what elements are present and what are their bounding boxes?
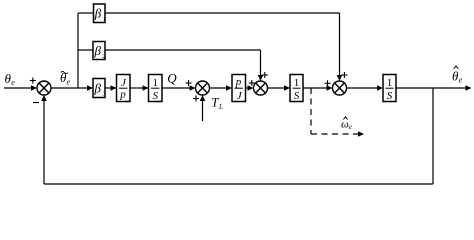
wire feedback up into S1 — [41, 95, 47, 184]
svg-text:e: e — [459, 76, 463, 85]
plus sign top right at S3 — [262, 72, 268, 78]
node theta_hat_e label — [452, 66, 463, 85]
svg-text:1: 1 — [152, 77, 158, 89]
node theta_tilde_e label — [60, 70, 71, 87]
node theta_e input label — [5, 71, 16, 87]
svg-text:β: β — [94, 6, 102, 21]
dashed wire omega_hat branch vertical — [310, 88, 312, 134]
svg-text:β: β — [93, 43, 101, 58]
svg-text:S: S — [294, 90, 300, 102]
svg-text:S: S — [387, 90, 393, 102]
wire stub to beta1 block — [78, 12, 94, 14]
node T_L label — [211, 95, 223, 112]
wire S4 to block 1/S c — [347, 85, 384, 91]
plus sign left at S3 — [249, 80, 255, 86]
wire feedback down from output node — [432, 88, 434, 184]
wire beta2 down into summing junction S3 — [258, 50, 264, 81]
wire beta3 to block J/p — [105, 85, 117, 91]
node omega_hat_e label — [341, 117, 352, 131]
block beta1 — [94, 4, 107, 23]
wire J/p to block 1/S a — [130, 85, 149, 91]
block 1/S b — [290, 75, 303, 102]
wire branch vertical up from node at x=78 — [77, 13, 79, 88]
plus sign left at S4 — [325, 80, 331, 86]
svg-text:ω: ω — [341, 118, 349, 130]
block beta3 — [93, 79, 107, 98]
block 1/S c — [383, 75, 396, 102]
svg-text:p: p — [119, 89, 126, 101]
svg-text:1: 1 — [103, 16, 106, 23]
wire S3 to block 1/S b — [268, 85, 291, 91]
plus sign bottom at S2 — [193, 96, 199, 102]
summing junction S4 — [333, 81, 347, 95]
wire 1/S a to summing junction S2 — [162, 85, 196, 91]
wire S2 to block p/J — [210, 85, 233, 91]
block p/J — [232, 75, 246, 103]
wire p/J to summing junction S3 — [246, 85, 254, 91]
svg-text:L: L — [218, 103, 223, 111]
block J/p — [117, 75, 131, 102]
wire feedback bottom — [44, 183, 433, 185]
svg-text:e: e — [67, 78, 71, 87]
svg-text:1: 1 — [294, 77, 300, 89]
block beta2 — [93, 42, 107, 61]
wire T_L input from below into S2 — [200, 95, 206, 121]
wire beta2 output to the right — [105, 49, 261, 51]
svg-text:p: p — [235, 76, 242, 88]
svg-text:S: S — [152, 90, 158, 102]
wire S1 output to beta3 block — [51, 85, 93, 91]
plus sign at summing junction S1 — [30, 78, 36, 84]
summing junction S1 — [37, 81, 51, 95]
minus sign at summing junction S1 — [33, 102, 39, 104]
plus sign left at S2 — [186, 80, 192, 86]
block 1/S a — [149, 75, 163, 102]
plus sign top right at S4 — [341, 72, 347, 78]
summing junction S2 — [196, 81, 210, 95]
wire 1/S b to summing junction S4 — [303, 85, 333, 91]
wire input to summing junction S1 — [4, 85, 37, 91]
svg-text:e: e — [349, 123, 352, 131]
wire output theta_hat_e — [396, 85, 472, 91]
wire beta1 down into summing junction S4 — [337, 13, 343, 81]
wire stub to beta2 block — [78, 49, 93, 51]
svg-text:e: e — [11, 78, 15, 87]
dashed wire omega_hat branch horizontal with arrow — [311, 131, 364, 137]
svg-text:Q: Q — [167, 70, 177, 85]
wire beta1 output to the right — [105, 12, 340, 14]
summing junction S3 — [254, 81, 268, 95]
svg-text:1: 1 — [387, 77, 393, 89]
svg-text:β: β — [93, 81, 101, 96]
